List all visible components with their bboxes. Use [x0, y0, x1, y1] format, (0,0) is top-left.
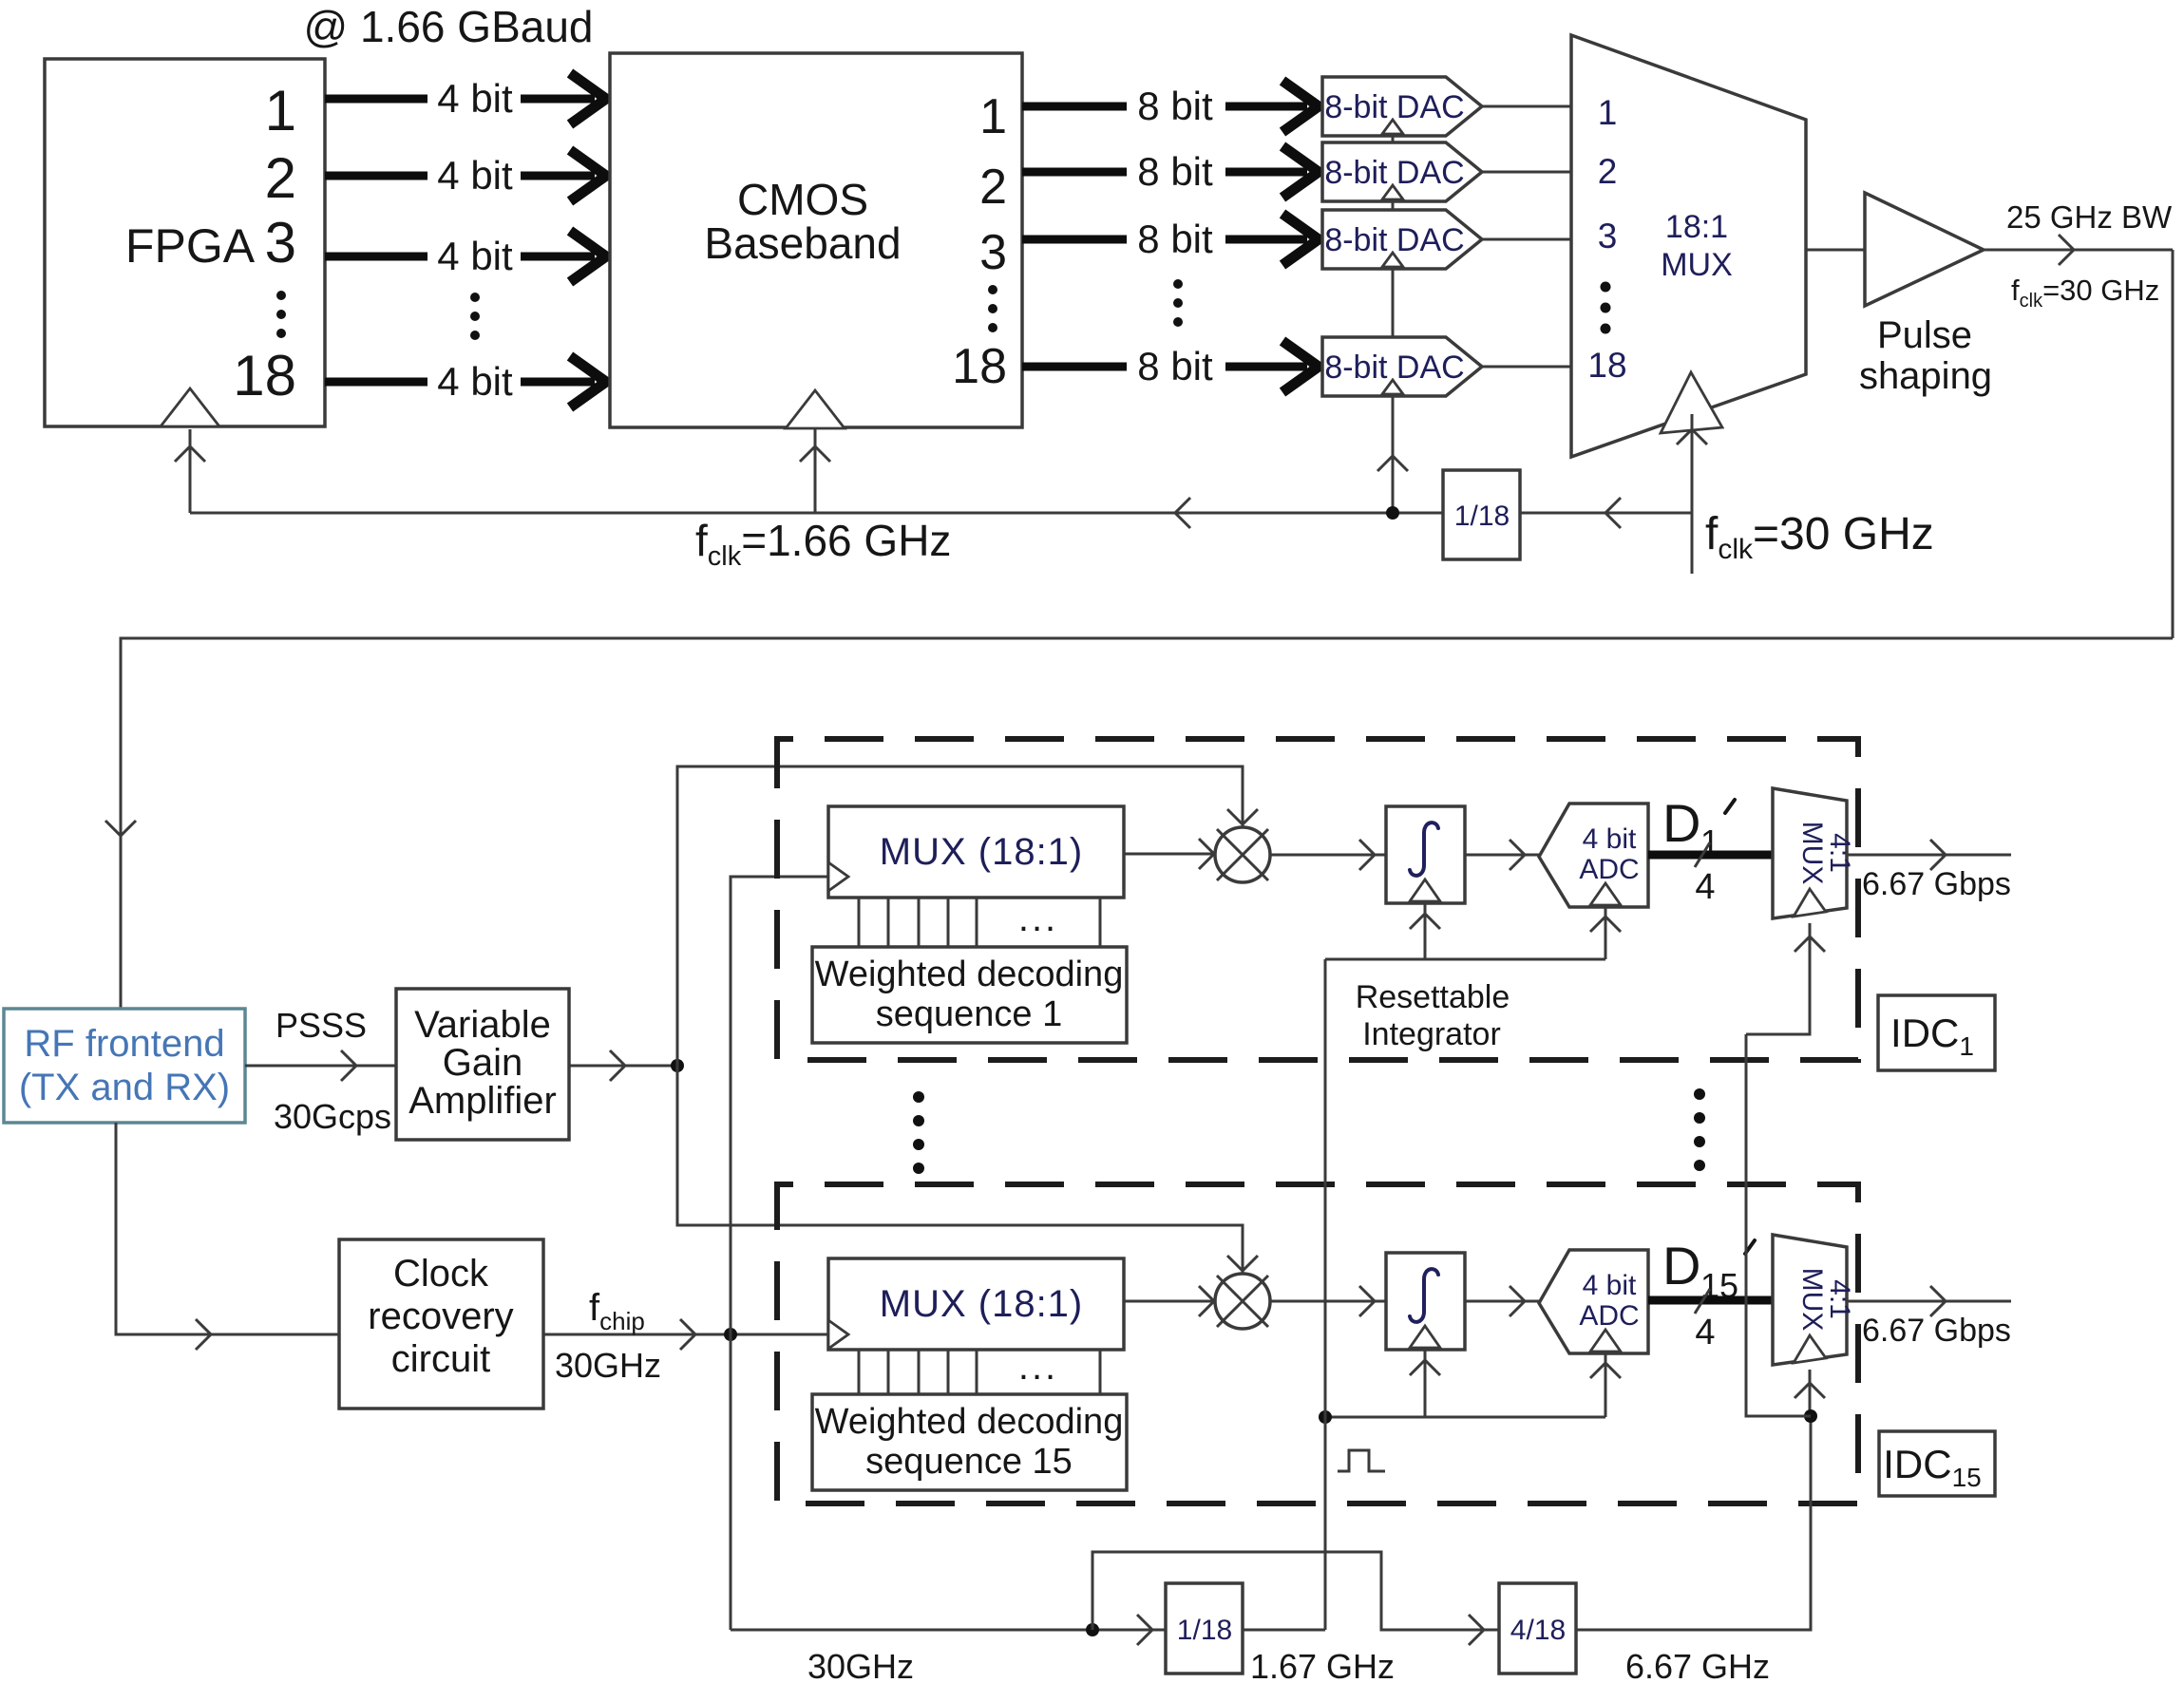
wire 1.67GHz trunk — [1324, 959, 1327, 1630]
svg-text:MUX (18:1): MUX (18:1) — [880, 1283, 1084, 1325]
MUX clock triangle — [1661, 372, 1722, 433]
svg-text:4 bit: 4 bit — [437, 234, 513, 278]
wire bus CMOS->DAC row1, 8 bit — [1022, 81, 1319, 132]
svg-text:6.67 Gbps: 6.67 Gbps — [1862, 1313, 2011, 1349]
ADC1 clock triangle — [1590, 883, 1621, 959]
4:1MUX15 clock triangle — [1794, 1335, 1826, 1363]
mux U17 4:1 MUX — [1773, 788, 1847, 918]
ellipsis between IDCs right — [1694, 1088, 1705, 1171]
node VGA junction — [671, 1059, 684, 1072]
wire DAC3->MUX — [1482, 238, 1571, 241]
wire bus CMOS->DAC row18, 8 bit — [1022, 341, 1319, 392]
svg-text:4: 4 — [1695, 867, 1715, 907]
svg-text:4/18: 4/18 — [1510, 1615, 1566, 1646]
box U19 Weighted decoding sequence 15 — [812, 1394, 1127, 1490]
svg-text:18: 18 — [952, 339, 1007, 394]
svg-text:8 bit: 8 bit — [1137, 84, 1213, 128]
wire X15->integrator — [1270, 1286, 1386, 1316]
wire bus CMOS->DAC row2, 8 bit — [1022, 146, 1319, 198]
wire integrator->ADC — [1465, 840, 1539, 870]
ellipsis 8bit column — [1173, 279, 1183, 327]
ADC U16 4 bit ADC — [1539, 804, 1648, 907]
svg-text:8-bit DAC: 8-bit DAC — [1324, 222, 1464, 258]
svg-text:...: ... — [1018, 898, 1058, 939]
wire 30GHz->1/18 — [1520, 498, 1692, 528]
svg-text:Resettable: Resettable — [1356, 979, 1510, 1015]
svg-text:Integrator: Integrator — [1362, 1016, 1501, 1052]
svg-text:2: 2 — [1598, 152, 1618, 191]
wire signal to IDC1 — [677, 766, 1258, 1066]
ADC15 clock triangle — [1590, 1330, 1621, 1417]
wire fchip 30GHz — [543, 1319, 828, 1350]
CMOS Baseband U2 — [610, 53, 1022, 427]
svg-text:4:1: 4:1 — [1824, 1279, 1855, 1319]
svg-text:3: 3 — [979, 225, 1007, 280]
svg-text:Baseband: Baseband — [704, 218, 901, 268]
node clock/DAC junction — [1386, 506, 1399, 520]
wire 1/18 output 1.67GHz — [1243, 1629, 1325, 1632]
wire bus FPGA->CMOS row3, 4 bit — [325, 231, 606, 282]
svg-text:25 GHz BW: 25 GHz BW — [2006, 199, 2173, 235]
svg-text:@ 1.66 GBaud: @ 1.66 GBaud — [304, 2, 594, 51]
wire long feedback top — [121, 638, 2173, 1009]
svg-text:4: 4 — [1695, 1313, 1715, 1352]
svg-text:8 bit: 8 bit — [1137, 344, 1213, 388]
dashed box IDC1 — [777, 739, 1858, 1060]
svg-text:30GHz: 30GHz — [807, 1647, 914, 1683]
node bottom junction — [1086, 1623, 1099, 1636]
wire CMOS clock stub — [800, 429, 830, 513]
svg-text:Gain: Gain — [443, 1042, 523, 1084]
box U14 Weighted decoding sequence 1 — [812, 947, 1127, 1043]
wire 6.67GHz clock into 4:1MUX15 — [1795, 1370, 1825, 1414]
svg-text:2: 2 — [979, 160, 1007, 215]
wire DAC18->MUX — [1482, 366, 1571, 369]
MUX15 clock input chevron — [828, 1320, 848, 1349]
svg-text:8-bit DAC: 8-bit DAC — [1324, 155, 1464, 191]
svg-text:1: 1 — [265, 79, 296, 142]
svg-text:sequence 1: sequence 1 — [876, 994, 1063, 1034]
FPGA U1 — [45, 59, 325, 426]
wire DAC2->MUX — [1482, 171, 1571, 174]
FPGA pins ellipsis — [276, 291, 286, 338]
svg-text:3: 3 — [265, 211, 296, 274]
svg-text:MUX: MUX — [1796, 1268, 1828, 1332]
divider U24 4/18 — [1499, 1583, 1576, 1674]
svg-text:MUX: MUX — [1796, 822, 1828, 885]
divider U9 1/18 — [1443, 470, 1520, 559]
pulse waveform symbol — [1338, 1450, 1385, 1471]
amplifier U8 pulse shaping — [1865, 193, 1984, 306]
wire DAC clock stub arrow — [1377, 456, 1408, 471]
mux U18 MUX (18:1) — [828, 1258, 1124, 1350]
wire FPGA clock stub — [175, 429, 205, 513]
svg-text:4:1: 4:1 — [1824, 833, 1855, 873]
node 6.67GHz junction — [1804, 1409, 1817, 1423]
svg-text:Weighted decoding: Weighted decoding — [815, 955, 1124, 994]
wire 1.67GHz feed IDC15 — [1325, 1416, 1605, 1419]
svg-text:Pulse: Pulse — [1877, 314, 1972, 356]
svg-text:2: 2 — [265, 146, 296, 210]
divider U23 1/18 — [1166, 1583, 1243, 1674]
wire bus FPGA->CMOS row1, 4 bit — [325, 73, 606, 124]
svg-text:18:1: 18:1 — [1665, 209, 1728, 245]
svg-text:8-bit DAC: 8-bit DAC — [1324, 89, 1464, 125]
svg-text:D: D — [1662, 1236, 1700, 1295]
wire RF->clock recovery — [116, 1123, 339, 1350]
wire bus FPGA->CMOS row18, 4 bit — [325, 356, 606, 407]
DAC U4 (8-bit DAC row2) — [1322, 142, 1482, 201]
integrator15 clock triangle — [1410, 1326, 1440, 1417]
svg-text:6.67 GHz: 6.67 GHz — [1625, 1647, 1770, 1683]
4:1MUX clock triangle — [1794, 889, 1826, 917]
svg-text:...: ... — [1018, 1346, 1058, 1388]
svg-text:Weighted decoding: Weighted decoding — [815, 1402, 1124, 1442]
svg-text:1/18: 1/18 — [1454, 501, 1510, 532]
bus ADC->4:1MUX width 4 — [1648, 842, 1773, 907]
wire pulse shaping output — [1984, 235, 2173, 265]
wire DAC clock chain — [1392, 136, 1395, 513]
MUX1 clock input chevron — [828, 862, 848, 891]
wire MUX1->multiplier — [1124, 839, 1215, 869]
MUX ellipsis — [1601, 282, 1611, 334]
wire 1.67GHz feed IDC1 — [1325, 958, 1605, 961]
svg-text:3: 3 — [1598, 217, 1618, 255]
integrator U15 — [1386, 806, 1465, 903]
wire VGA output — [569, 1050, 677, 1081]
svg-text:4 bit: 4 bit — [437, 153, 513, 198]
svg-text:8 bit: 8 bit — [1137, 149, 1213, 194]
svg-text:1: 1 — [1598, 93, 1618, 132]
svg-text:FPGA: FPGA — [125, 219, 256, 273]
svg-text:shaping: shaping — [1859, 355, 1992, 397]
wire fclk30 vertical into MUX — [1677, 414, 1707, 574]
DAC U5 (8-bit DAC row3) — [1322, 210, 1482, 269]
svg-text:18: 18 — [1587, 346, 1626, 385]
ADC U21 4 bit ADC — [1539, 1250, 1648, 1353]
wire output down right edge — [2172, 250, 2175, 638]
wire signal to IDC15 — [677, 1066, 1258, 1276]
wire 6.67GHz branch to IDC1 — [1746, 1034, 1811, 1416]
svg-text:Amplifier: Amplifier — [408, 1080, 557, 1122]
svg-text:MUX (18:1): MUX (18:1) — [880, 831, 1084, 873]
wire 4/18 output 6.67GHz — [1576, 1416, 1811, 1630]
svg-text:ADC: ADC — [1579, 1300, 1639, 1332]
DAC U3 (8-bit DAC row1) — [1322, 77, 1482, 136]
node feed15 junction — [1319, 1410, 1332, 1424]
DAC U6 (8-bit DAC row18) — [1322, 337, 1482, 396]
wire 30GHz bypass over 1/18 — [1092, 1552, 1499, 1645]
FPGA clock triangle — [161, 388, 219, 426]
svg-text:6.67 Gbps: 6.67 Gbps — [1862, 866, 2011, 902]
svg-text:D: D — [1662, 793, 1700, 853]
ellipsis 4bit column — [470, 293, 480, 340]
svg-text:Variable: Variable — [414, 1004, 551, 1046]
svg-text:18: 18 — [233, 344, 296, 407]
wire 4:1MUX15 output 6.67Gbps — [1847, 1286, 2011, 1316]
wire 30GHz bottom line — [731, 1615, 1166, 1645]
wires MUX1 to decoder comb — [859, 898, 1100, 947]
svg-text:4 bit: 4 bit — [1583, 823, 1637, 855]
RF frontend U10 — [4, 1009, 245, 1123]
svg-text:1: 1 — [979, 89, 1007, 144]
svg-text:30Gcps: 30Gcps — [274, 1097, 391, 1136]
mux U22 4:1 MUX — [1773, 1235, 1847, 1365]
svg-text:4 bit: 4 bit — [437, 359, 513, 404]
integrator1 clock triangle — [1410, 879, 1440, 959]
svg-text:circuit: circuit — [391, 1338, 490, 1380]
svg-text:PSSS: PSSS — [275, 1006, 367, 1045]
svg-text:recovery: recovery — [368, 1295, 513, 1337]
wire clock line fclk 1.66GHz — [190, 498, 1443, 528]
integrator U20 — [1386, 1253, 1465, 1350]
wire 4:1MUX output 6.67Gbps — [1847, 840, 2011, 870]
mux U13 MUX (18:1) — [828, 806, 1124, 898]
svg-text:MUX: MUX — [1661, 247, 1733, 283]
label box IDC15 — [1879, 1431, 1995, 1496]
CMOS pins ellipsis — [988, 285, 997, 332]
svg-text:CMOS: CMOS — [737, 175, 868, 224]
wire 30GHz trunk — [731, 877, 828, 1630]
wire X1->integrator — [1270, 840, 1386, 870]
svg-text:ADC: ADC — [1579, 854, 1639, 885]
svg-text:Clock: Clock — [393, 1253, 489, 1295]
ellipsis between IDCs left — [913, 1091, 924, 1174]
svg-text:8-bit DAC: 8-bit DAC — [1324, 350, 1464, 386]
label box IDC1 — [1878, 995, 1995, 1070]
svg-text:4 bit: 4 bit — [437, 76, 513, 121]
wire RF->VGA PSSS — [245, 1050, 396, 1081]
CMOS clock triangle — [786, 390, 845, 428]
wires MUX15 to decoder comb — [859, 1350, 1100, 1394]
svg-text:1/18: 1/18 — [1177, 1615, 1232, 1646]
node fchip junction — [724, 1328, 737, 1341]
svg-text:RF frontend: RF frontend — [24, 1023, 224, 1065]
svg-text:sequence 15: sequence 15 — [865, 1442, 1073, 1482]
svg-text:30GHz: 30GHz — [555, 1346, 661, 1385]
wire arrow into RF frontend — [105, 821, 136, 836]
wire bus CMOS->DAC row3, 8 bit — [1022, 214, 1319, 265]
multiplier X1 — [1215, 827, 1270, 882]
multiplier X15 — [1215, 1274, 1270, 1329]
wire bus FPGA->CMOS row2, 4 bit — [325, 150, 606, 201]
wire MUX->pulse shaping — [1806, 249, 1865, 252]
wire integrator->ADC15 — [1465, 1286, 1539, 1316]
mux U7 18:1 MUX trapezoid — [1571, 35, 1806, 457]
wire 6.67GHz clock into 4:1MUX1 — [1746, 923, 1825, 1034]
svg-text:1.67 GHz: 1.67 GHz — [1250, 1647, 1395, 1683]
svg-text:4 bit: 4 bit — [1583, 1270, 1637, 1301]
svg-text:8 bit: 8 bit — [1137, 217, 1213, 261]
bus ADC15->4:1MUX width 4 — [1648, 1289, 1773, 1352]
wire DAC1->MUX — [1482, 105, 1571, 108]
dashed box IDC15 — [777, 1184, 1858, 1503]
svg-text:(TX and RX): (TX and RX) — [19, 1067, 230, 1108]
amplifier U11 Variable Gain Amplifier — [396, 989, 569, 1140]
clock recovery U12 — [339, 1239, 543, 1409]
wire MUX15->multiplier — [1124, 1286, 1215, 1316]
